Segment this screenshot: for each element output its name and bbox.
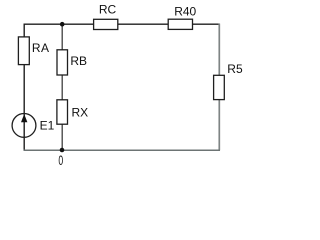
resistor R5 body	[214, 75, 225, 99]
wire left branch vertical	[23, 24, 25, 151]
resistor RA body	[18, 37, 29, 65]
junction node A (top)	[60, 22, 65, 27]
resistor RB body	[57, 50, 68, 75]
svg-text:RX: RX	[72, 105, 89, 119]
svg-text:RC: RC	[99, 3, 117, 17]
svg-text:R5: R5	[227, 62, 243, 76]
resistor R40 body	[168, 19, 192, 29]
resistor RX body	[57, 100, 68, 124]
wire bottom bus (node 0)	[24, 149, 221, 151]
resistor RC body	[94, 19, 118, 29]
wire middle branch vertical (RB/RX)	[61, 24, 63, 150]
svg-text:R: R	[32, 41, 41, 55]
svg-text:R40: R40	[174, 5, 196, 19]
wire top bus from node A to right corner	[24, 23, 220, 25]
EMF source E1 circle	[12, 114, 36, 138]
svg-text:RB: RB	[70, 54, 87, 68]
svg-text:0: 0	[58, 153, 63, 168]
svg-text:A: A	[41, 41, 49, 55]
svg-text:E1: E1	[40, 119, 55, 133]
wire right branch vertical (R5)	[218, 24, 220, 151]
EMF source E1 arrow head	[21, 114, 27, 122]
junction node 0 (bottom)	[60, 148, 65, 153]
